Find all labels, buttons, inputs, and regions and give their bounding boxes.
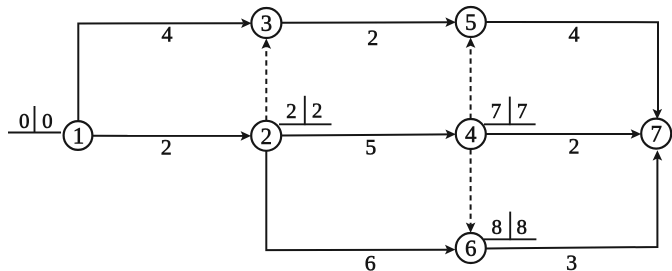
svg-text:7: 7 [491,99,502,123]
svg-text:2: 2 [312,99,323,123]
svg-text:0: 0 [42,109,53,133]
svg-text:3: 3 [566,250,577,271]
svg-text:0: 0 [19,109,30,133]
svg-text:6: 6 [465,236,477,261]
svg-text:2: 2 [161,134,172,159]
svg-text:7: 7 [517,99,528,123]
svg-text:2: 2 [569,134,580,159]
svg-text:7: 7 [650,122,662,147]
svg-text:3: 3 [261,11,273,36]
svg-text:4: 4 [569,21,580,46]
svg-text:6: 6 [365,251,376,271]
svg-text:8: 8 [492,215,503,239]
svg-text:2: 2 [286,99,297,123]
svg-text:4: 4 [162,21,173,46]
svg-text:2: 2 [367,25,378,50]
svg-text:4: 4 [465,122,477,147]
svg-text:8: 8 [517,215,528,239]
svg-text:2: 2 [260,124,272,149]
svg-text:5: 5 [365,134,376,159]
svg-text:1: 1 [73,123,85,148]
svg-text:5: 5 [465,10,477,35]
